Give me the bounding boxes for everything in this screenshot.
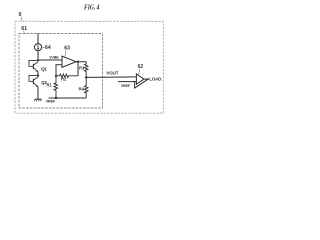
- svg-text:VREF: VREF: [121, 84, 131, 88]
- svg-text:FIG. 4: FIG. 4: [84, 4, 100, 12]
- svg-text:2VBE: 2VBE: [49, 55, 59, 59]
- op-amp output wire: [76, 61, 78, 63]
- VOUT wire to buffer: [86, 76, 136, 79]
- transistor Q2 base loop wire: [29, 76, 38, 82]
- node E dot: [55, 97, 57, 99]
- output node dot: [77, 61, 79, 63]
- buffer feedback input wire: [118, 81, 136, 83]
- op-amp 63: [62, 56, 76, 67]
- wire 2VBE node to op-amp: [38, 59, 62, 61]
- svg-text:LOAD: LOAD: [149, 76, 161, 81]
- svg-text:64: 64: [45, 45, 51, 51]
- op-amp buffer 62: [136, 74, 144, 84]
- node B: [37, 75, 39, 77]
- resistor R4 (lower right vertical): [84, 77, 88, 98]
- wire current source to node A: [37, 51, 39, 61]
- svg-text:R2: R2: [61, 76, 67, 81]
- leader for 6: [20, 17, 23, 22]
- wire Q2 emitter to ground: [37, 87, 39, 100]
- svg-text:VREF: VREF: [46, 100, 56, 104]
- ground: [35, 98, 42, 100]
- svg-text:R1: R1: [46, 82, 52, 87]
- feedback wire (output to inverting input): [135, 79, 148, 88]
- leader for 62: [138, 69, 141, 75]
- wire supply to current source: [37, 34, 39, 44]
- resistor R2 (horizontal): [56, 74, 78, 78]
- leader for 63: [64, 50, 66, 57]
- svg-text:Q1: Q1: [41, 67, 47, 72]
- VREF node wire: [49, 97, 87, 99]
- svg-text:R3: R3: [79, 65, 85, 70]
- svg-text:61: 61: [21, 26, 27, 32]
- current source 64: [34, 44, 41, 51]
- wire op-amp output to R3: [78, 61, 86, 63]
- leader for 61: [23, 31, 25, 34]
- transistor Q1 base loop wire: [29, 60, 38, 66]
- svg-text:63: 63: [64, 45, 70, 51]
- outer box (label 6): [15, 21, 163, 113]
- node D (VOUT divider): [85, 76, 87, 78]
- node C (R2/R1 junction): [55, 75, 57, 77]
- resistor R3 (upper right vertical): [84, 62, 88, 78]
- inner dashed box (bandgap block 61): [19, 34, 103, 109]
- svg-text:62: 62: [138, 64, 144, 70]
- node A: [37, 59, 39, 61]
- svg-text:VOUT: VOUT: [106, 71, 119, 76]
- transistor Q2: [32, 79, 34, 84]
- feedback junction dot: [147, 78, 149, 80]
- leader and label 64: [42, 46, 45, 48]
- wire Q1 emitter to node B: [37, 72, 39, 76]
- transistor Q1: [32, 64, 34, 69]
- resistor R1 (left vertical): [54, 76, 58, 98]
- feedback wire output down to R2: [77, 62, 79, 76]
- buffer output wire: [144, 78, 149, 80]
- svg-text:R4: R4: [79, 86, 85, 91]
- op-amp inverting input stub: [56, 65, 62, 76]
